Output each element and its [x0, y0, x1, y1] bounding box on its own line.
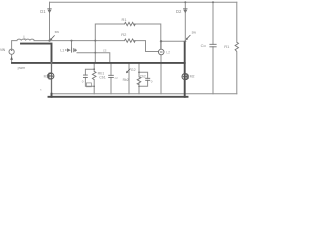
svg-text:Rb2: Rb2: [123, 78, 129, 82]
svg-text:Co: Co: [201, 43, 207, 48]
svg-text:sw: sw: [55, 30, 60, 34]
svg-text:Cb1: Cb1: [99, 75, 106, 79]
svg-text:R1: R1: [224, 44, 230, 49]
svg-text:R1: R1: [122, 17, 128, 22]
svg-text:L2: L2: [166, 50, 170, 54]
svg-text:Cb2: Cb2: [140, 75, 146, 79]
svg-text:cs: cs: [103, 49, 107, 53]
svg-text:M2: M2: [190, 75, 195, 79]
svg-text:D2: D2: [176, 9, 182, 14]
svg-text:pwm: pwm: [18, 66, 26, 70]
svg-text:L: L: [23, 34, 26, 39]
svg-text:VIN: VIN: [0, 48, 6, 52]
svg-text:L1: L1: [60, 48, 64, 52]
svg-text:G2: G2: [131, 68, 136, 72]
svg-text:R2: R2: [121, 32, 127, 37]
svg-text:M1: M1: [44, 75, 49, 79]
svg-text:D1: D1: [40, 9, 46, 14]
svg-text:sw: sw: [192, 30, 197, 34]
svg-text:c2: c2: [115, 76, 119, 80]
